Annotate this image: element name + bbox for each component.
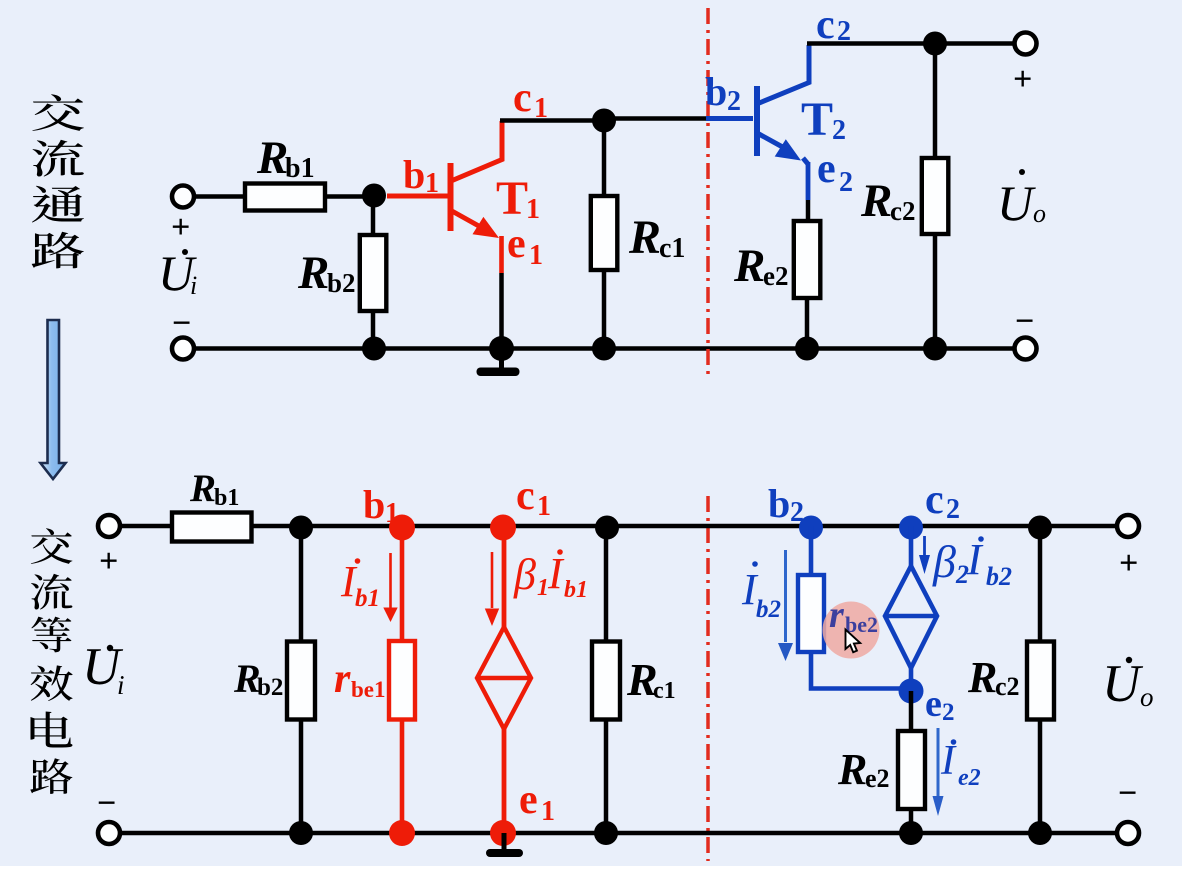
input terminal + (top circuit) [172, 186, 194, 208]
wire rbe1 to bottom rail [400, 720, 405, 834]
svg-text:R: R [189, 467, 216, 510]
svg-text:2: 2 [946, 494, 960, 525]
svg-text:R: R [967, 653, 997, 702]
svg-text:b1: b1 [564, 577, 588, 603]
node emitter at rail [489, 336, 514, 361]
svg-text:r: r [334, 656, 351, 702]
svg-text:2: 2 [727, 86, 741, 117]
svg-text:1: 1 [425, 168, 439, 199]
resistor Rc1 (top) [591, 196, 618, 270]
svg-text:U: U [1102, 655, 1144, 713]
wire c1 down to diamond [502, 526, 507, 629]
emitter stub blue (T2) [806, 162, 811, 200]
label Ui (top circuit) [158, 245, 197, 301]
svg-text:1: 1 [526, 194, 540, 225]
node b2 (blue) [799, 516, 823, 540]
wire rbe2 elbow to e2 [811, 652, 909, 689]
svg-text:e: e [817, 146, 836, 192]
svg-text:T: T [801, 93, 833, 146]
svg-text:c1: c1 [659, 233, 685, 264]
svg-text:2: 2 [839, 167, 853, 198]
resistor Rc2 (bottom) [1027, 642, 1054, 720]
resistor Rc2 (top) [922, 158, 949, 234]
wire b1 down to rbe1 [400, 526, 405, 641]
wire input to Rb1 [194, 194, 245, 199]
emitter stub black to rail (T1) [499, 273, 504, 349]
svg-text:e2: e2 [763, 261, 788, 291]
svg-text:−: − [1118, 775, 1137, 812]
input terminal - (top circuit) [172, 338, 194, 360]
svg-text:r: r [829, 594, 845, 636]
svg-text:b1: b1 [285, 153, 315, 184]
wire Re2 to rail [805, 298, 810, 349]
node c1 rail [592, 109, 616, 133]
svg-text:c: c [925, 477, 944, 523]
wire Rc2 to rail [933, 234, 938, 349]
svg-text:e: e [519, 777, 538, 823]
wire c1-node to divider (black) [604, 116, 706, 121]
label Uo (bottom circuit) [1102, 655, 1154, 713]
resistor rbe1 (red) [389, 641, 415, 720]
svg-text:+: + [1013, 61, 1032, 98]
svg-text:c2: c2 [995, 672, 1020, 701]
svg-text:b2: b2 [257, 674, 283, 701]
caption: AC equivalent circuit (交流等效电路) [30, 528, 72, 794]
label Ie2 [940, 738, 981, 791]
label rbe1 [334, 656, 386, 702]
node c2 (blue) [899, 516, 923, 540]
wire Re2 to bottom rail [909, 809, 914, 833]
svg-text:+: + [1119, 545, 1138, 582]
bottom rail (top circuit) [194, 346, 1014, 351]
top rail stage2 (c2 wire) [807, 41, 1014, 46]
label beta1 Ib1 [513, 549, 588, 603]
svg-text:c2: c2 [890, 196, 915, 226]
resistor rbe2 (blue) [798, 575, 824, 652]
mouse cursor [846, 630, 861, 653]
wire c2 down to diamond (blue) [909, 526, 914, 566]
svg-text:I: I [547, 549, 565, 598]
node rail after c1 (bottom) [595, 516, 619, 540]
svg-text:β: β [932, 536, 956, 587]
wire Rc1 to rail (bottom) [604, 720, 609, 834]
svg-text:R: R [837, 745, 867, 794]
label Ui (bottom circuit) [82, 638, 125, 700]
wire e2 down to Re2 [909, 691, 914, 731]
svg-text:b1: b1 [355, 585, 380, 612]
svg-text:−: − [1015, 303, 1034, 340]
wire Rb2 to bottom rail [299, 720, 304, 834]
node rail below Rc2 [923, 337, 947, 361]
svg-text:2: 2 [942, 699, 955, 726]
transistor T1 (red) [387, 121, 502, 231]
wire Rb1 to node [325, 194, 374, 199]
wire node down to Rc1 (bottom) [604, 526, 609, 642]
label beta2 Ib2 [932, 535, 1012, 591]
svg-text:b: b [705, 69, 727, 114]
svg-text:be1: be1 [351, 677, 386, 702]
node c1 (red) [490, 515, 516, 541]
svg-text:1: 1 [385, 498, 399, 529]
transistor T2 (blue) [757, 45, 809, 156]
output terminal + (top) [1015, 33, 1037, 55]
svg-text:2: 2 [790, 497, 804, 528]
node rail before Rc2 (bottom) [1028, 516, 1052, 540]
label Ib1 [340, 557, 380, 612]
svg-text:2: 2 [832, 115, 846, 146]
svg-text:c1: c1 [653, 678, 676, 704]
node rail below Rc1 (bottom) [594, 821, 618, 845]
svg-text:e: e [507, 221, 526, 267]
output terminal + (bottom circuit) [1117, 515, 1139, 537]
node rail below Rc1 [592, 337, 616, 361]
svg-text:b2: b2 [327, 268, 356, 298]
label Uo (top circuit) [997, 169, 1046, 231]
wire Rc1 to rail [602, 270, 607, 349]
resistor Rc1 (bottom) [592, 642, 620, 720]
node after Rb1 [289, 516, 313, 540]
divider dash-dot line (lower segment) [706, 496, 710, 861]
svg-text:c: c [513, 75, 532, 121]
svg-text:+: + [99, 543, 118, 580]
big flow arrow [41, 320, 66, 479]
svg-text:c: c [816, 2, 835, 48]
svg-text:e: e [925, 683, 942, 725]
wire Rb2 to bottom rail [371, 311, 376, 349]
resistor Rb2 (top) [360, 235, 387, 311]
caption: AC path (交流通路) [32, 94, 84, 268]
wire node down to Rc2 (bottom) [1038, 526, 1043, 642]
controlled source diamond (blue) [885, 566, 937, 668]
svg-text:I: I [966, 535, 984, 584]
node rail below Re2 [795, 337, 819, 361]
resistor Re2 (top) [794, 221, 821, 298]
output terminal - (bottom circuit) [1117, 822, 1139, 844]
resistor Rb2 (bottom) [287, 642, 315, 720]
emitter stub red (T1) [499, 236, 504, 273]
svg-text:i: i [190, 271, 197, 300]
svg-text:b1: b1 [214, 485, 239, 511]
svg-text:1: 1 [529, 240, 543, 271]
svg-text:b: b [403, 152, 425, 197]
node c2 rail [923, 32, 947, 56]
top rail (bottom circuit) [120, 524, 1116, 529]
node rail below Rc2 (bottom) [1028, 821, 1052, 845]
resistor Re2 (bottom) [898, 731, 925, 809]
bottom rail (bottom circuit) [120, 831, 1116, 836]
controlled source diamond (red) [477, 627, 531, 729]
wire node down to Rc2 [933, 44, 938, 159]
node bottom rail below Rb2 [362, 337, 386, 361]
node base junction (top) [362, 184, 386, 208]
current arrow Ib1 [383, 553, 397, 622]
wire node down to Rc1 [602, 121, 607, 197]
highlight circle (pink) [823, 602, 880, 659]
current arrow beta2 Ib2 [919, 536, 930, 574]
svg-text:R: R [628, 211, 661, 264]
output terminal - (top) [1015, 338, 1037, 360]
emitter stub black to Re2 [806, 200, 811, 221]
wire diamond to e2 [909, 668, 914, 691]
svg-text:R: R [733, 240, 765, 292]
svg-text:i: i [117, 670, 125, 700]
label rbe2 [829, 594, 878, 637]
node b1-bottom (red) [389, 820, 415, 846]
node b1 (red) [389, 515, 415, 541]
wire node down to Rb2 [371, 197, 376, 236]
label Ib2 [741, 561, 781, 623]
wire divider to T2 base (blue) [706, 116, 753, 121]
ground (top circuit) [499, 349, 504, 369]
svg-text:+: + [171, 209, 190, 246]
wire Rc2 to rail (bottom) [1038, 720, 1043, 834]
svg-text:β: β [513, 550, 536, 599]
svg-text:o: o [1140, 682, 1154, 712]
svg-text:b2: b2 [986, 562, 1012, 591]
input terminal - (bottom circuit) [98, 822, 120, 844]
svg-text:b2: b2 [756, 596, 781, 623]
ground (bottom circuit) [502, 833, 507, 850]
svg-text:b: b [768, 481, 790, 526]
current arrow beta1 Ib1 [485, 552, 499, 626]
svg-text:c: c [516, 473, 535, 519]
wire node down to Rb2 (bottom) [299, 526, 304, 642]
svg-text:U: U [997, 175, 1036, 231]
svg-text:T: T [496, 172, 528, 225]
svg-text:R: R [297, 247, 329, 299]
resistor Rb1 (bottom) [172, 513, 252, 542]
node e2 (blue) [899, 679, 924, 704]
svg-text:−: − [97, 785, 116, 822]
current arrow Ie2 [933, 728, 944, 816]
node e1 (red) [490, 820, 516, 846]
wire c1 to node (top rail stage1) [500, 118, 604, 123]
node bottom rail below Re2 [899, 821, 923, 845]
resistor Rb1 (top) [245, 184, 325, 211]
svg-text:I: I [940, 738, 957, 784]
svg-text:1: 1 [541, 796, 555, 827]
current arrow Ib2 [778, 550, 793, 661]
wire diamond to e1 [502, 729, 507, 833]
input terminal + (bottom circuit) [98, 515, 120, 537]
svg-text:e2: e2 [958, 765, 981, 791]
svg-text:e2: e2 [865, 764, 890, 793]
wire b2 down to rbe2 [809, 526, 814, 575]
svg-text:R: R [256, 132, 288, 184]
svg-text:1: 1 [537, 491, 551, 522]
divider dash-dot line [706, 8, 710, 374]
node bottom rail below Rb2 (bottom) [289, 821, 313, 845]
svg-text:R: R [860, 175, 892, 227]
svg-text:b: b [363, 482, 385, 527]
svg-text:o: o [1033, 199, 1046, 228]
